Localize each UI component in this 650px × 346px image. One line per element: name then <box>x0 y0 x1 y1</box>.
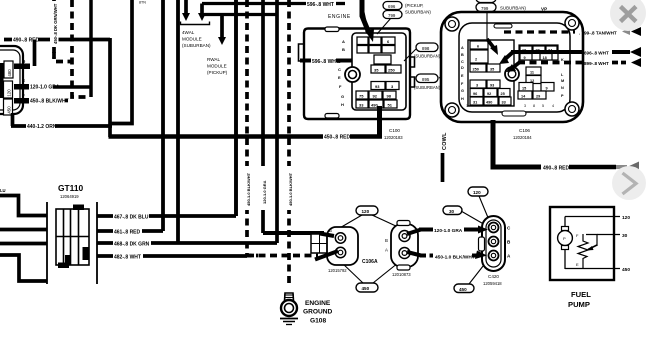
connector C100 shell <box>299 27 415 119</box>
connector C106A female half 12010873 <box>385 221 418 271</box>
C106 bottom slot <box>502 111 526 116</box>
connector C175 left (clipped at edge) <box>0 46 23 115</box>
svg-text:2: 2 <box>475 58 477 62</box>
svg-text:596-.8 WHT: 596-.8 WHT <box>307 2 334 8</box>
svg-text:LU: LU <box>0 188 6 193</box>
svg-text:11: 11 <box>530 71 534 75</box>
svg-text:450: 450 <box>459 287 467 292</box>
connector C420 <box>479 216 512 271</box>
svg-text:482-.8 WHT: 482-.8 WHT <box>114 255 141 261</box>
svg-text:A: A <box>461 46 464 50</box>
wire 490-.8 RED right <box>543 162 639 173</box>
svg-text:450-.8 DK GRN/WHT: 450-.8 DK GRN/WHT <box>53 3 58 44</box>
svg-text:E: E <box>576 262 579 267</box>
wire dashed vertical x72 <box>72 0 90 97</box>
wire 461-.8 RED <box>97 227 163 236</box>
svg-text:G: G <box>461 89 464 93</box>
oval 895 <box>414 74 441 90</box>
svg-text:12015792: 12015792 <box>328 268 347 273</box>
svg-text:N: N <box>561 86 564 90</box>
label GT110 <box>58 183 83 199</box>
svg-text:C: C <box>461 60 464 64</box>
svg-text:FUEL: FUEL <box>571 290 591 299</box>
wire dashed vertical x247 (450-1.0 BLK/WHT) <box>243 0 259 256</box>
svg-text:SUBURBAN): SUBURBAN) <box>405 10 431 15</box>
svg-text:E: E <box>338 75 341 80</box>
svg-text:(SUBURBAN): (SUBURBAN) <box>182 43 211 48</box>
svg-text:4WAL: 4WAL <box>182 30 195 35</box>
svg-text:450: 450 <box>622 267 630 273</box>
wire 468-.8 DK GRN <box>97 239 277 248</box>
wire oval895 to C106 <box>439 60 476 78</box>
svg-text:H: H <box>341 102 344 107</box>
svg-text:MODULE: MODULE <box>207 64 227 69</box>
svg-text:120: 120 <box>7 89 12 97</box>
svg-text:51: 51 <box>388 103 393 108</box>
svg-text:12064919: 12064919 <box>60 194 79 199</box>
wire RWAL feed <box>204 13 277 16</box>
svg-text:A: A <box>385 248 388 253</box>
C100 row letters <box>338 39 345 107</box>
svg-text:120-1.0 GRA: 120-1.0 GRA <box>434 228 463 234</box>
C106 left letters <box>461 46 464 101</box>
wire stub diagonal into pin A <box>315 251 338 260</box>
svg-text:92: 92 <box>487 92 491 96</box>
oval 696 upper right (clipped) <box>476 0 496 3</box>
wire from oval 799 to C100 <box>377 18 391 34</box>
svg-text:B: B <box>461 53 464 57</box>
svg-text:450-.8 RED: 450-.8 RED <box>324 135 351 141</box>
svg-text:15: 15 <box>522 87 526 91</box>
wire oval30 to C420 <box>461 211 487 226</box>
svg-text:440-1.2 ORN: 440-1.2 ORN <box>27 124 57 130</box>
wire vertical x91 <box>89 0 93 97</box>
GT110 left bracket <box>46 202 48 284</box>
oval 450 left <box>356 283 378 292</box>
svg-text:799: 799 <box>388 13 396 18</box>
wire 596-.8 WHT into C100 <box>300 59 352 65</box>
svg-text:5: 5 <box>542 104 544 108</box>
svg-text:C106A: C106A <box>362 259 378 265</box>
wire pin D riser <box>33 40 37 67</box>
svg-text:D: D <box>461 66 464 70</box>
wire oval450 to C106A pins <box>341 262 363 283</box>
svg-text:C100: C100 <box>389 128 400 133</box>
svg-text:18: 18 <box>543 56 547 60</box>
svg-text:B: B <box>329 228 332 233</box>
svg-text:4: 4 <box>552 104 554 108</box>
svg-text:G: G <box>341 94 344 99</box>
svg-text:696-.8 WHT: 696-.8 WHT <box>584 51 609 56</box>
wire from C100 to oval 898 <box>404 47 418 61</box>
svg-text:G108: G108 <box>310 318 326 325</box>
svg-text:799: 799 <box>481 6 489 11</box>
wire 450-.8 BLK/WHT <box>14 97 69 105</box>
svg-text:(PICKUP): (PICKUP) <box>207 70 228 75</box>
svg-text:898: 898 <box>422 46 430 51</box>
svg-text:ENGINE: ENGINE <box>305 300 331 307</box>
fuel pump wires <box>565 217 620 270</box>
svg-text:450: 450 <box>7 106 12 114</box>
svg-text:B: B <box>342 47 345 52</box>
wire vertical x163 <box>161 0 165 231</box>
C100 boss circle <box>345 67 360 82</box>
svg-text:12020184: 12020184 <box>513 135 532 140</box>
C106 left grid <box>468 40 514 106</box>
wire 596-.8 WHT upper <box>202 0 345 8</box>
pin E <box>14 78 30 90</box>
C106 boss circle <box>505 67 519 81</box>
oval 799 right <box>476 3 496 12</box>
svg-text:33: 33 <box>359 103 364 108</box>
wire C100 490 drop <box>377 106 382 138</box>
C106 bottom numbers <box>466 104 554 108</box>
svg-text:9: 9 <box>546 87 548 91</box>
label (PICKUP, SUBURBAN) <box>405 3 431 15</box>
wire dashed horizontal y255 <box>247 254 318 258</box>
svg-text:92: 92 <box>373 94 378 99</box>
cowl boundary line <box>441 153 445 182</box>
svg-text:120-1.0 GRA: 120-1.0 GRA <box>262 180 267 204</box>
svg-text:(PICKUP,: (PICKUP, <box>405 3 423 8</box>
svg-text:596-.8 WHT: 596-.8 WHT <box>312 59 339 65</box>
arrow 4WAL right <box>198 4 206 22</box>
svg-text:120: 120 <box>622 215 630 221</box>
next chevron overlay <box>612 166 646 200</box>
connector C106 shell <box>441 12 583 122</box>
arrow 4WAL left <box>182 0 190 21</box>
ground symbol G108 <box>280 293 298 325</box>
wire vertical x178 <box>176 0 180 243</box>
wire left feed 2 <box>0 228 47 232</box>
svg-text:. 799-.8 TAN/WHT: . 799-.8 TAN/WHT <box>579 31 617 36</box>
wire 440-1.2 ORN <box>11 113 112 130</box>
wire 899-.8 WHT dashed <box>506 58 641 72</box>
svg-text:30: 30 <box>449 209 455 214</box>
svg-text:A: A <box>342 39 345 44</box>
connector C106A male half 12015792 <box>311 227 358 265</box>
svg-text:468-.8 DK GRN: 468-.8 DK GRN <box>114 242 150 248</box>
svg-text:450-.8 BLK/WHT: 450-.8 BLK/WHT <box>30 99 69 105</box>
svg-text:490-.8 RED: 490-.8 RED <box>543 166 570 172</box>
svg-text:SUBURBAN): SUBURBAN) <box>500 6 526 11</box>
svg-text:C: C <box>338 67 341 72</box>
svg-text:H: H <box>461 97 464 101</box>
oval 799 <box>383 11 402 19</box>
wire 120-1.0 GRA to C420 <box>407 226 488 235</box>
wire left feed 1 <box>0 196 47 216</box>
label 4WAL MODULE (SUBURBAN) <box>182 30 211 48</box>
svg-text:29: 29 <box>536 95 540 99</box>
C100 pin grid <box>352 33 406 110</box>
oval 30 <box>443 206 462 215</box>
svg-text:B: B <box>385 238 388 243</box>
oval 120 left <box>356 206 378 215</box>
wire 120 GRA elbow to connector <box>263 231 324 235</box>
wire 490-.8 RED long horizontal to C100 <box>109 132 383 141</box>
svg-text:1: 1 <box>466 104 468 108</box>
label C100 12020183 <box>384 128 403 140</box>
wire vertical x277 <box>275 0 279 243</box>
svg-text:35: 35 <box>374 68 379 73</box>
svg-text:GT110: GT110 <box>58 183 83 193</box>
svg-text:GROUND: GROUND <box>303 309 333 316</box>
wire vertical x263 (120-1.0 GRA) <box>259 0 268 233</box>
svg-text:75: 75 <box>359 94 364 99</box>
svg-text:12020183: 12020183 <box>384 135 403 140</box>
close button overlay <box>610 0 646 31</box>
wire vertical x236 <box>234 0 238 216</box>
svg-text:8: 8 <box>533 104 535 108</box>
wire oval120 to C420 <box>479 196 489 220</box>
label C106 12020184 <box>513 128 532 140</box>
GT110 relay body <box>56 205 89 269</box>
wire stub into pin B <box>320 234 334 237</box>
fuel pump motor <box>558 227 573 250</box>
C106 corner bosses <box>445 16 579 117</box>
svg-text:461-.8 RED: 461-.8 RED <box>114 230 141 236</box>
wire 490-.8 RED horizontal top-left <box>4 36 110 44</box>
svg-text:3: 3 <box>524 104 526 108</box>
svg-text:96: 96 <box>473 92 477 96</box>
label ENGINE GROUND G108 <box>303 300 333 325</box>
oval 696 <box>383 2 402 10</box>
wire dashed 450-.8 DK GRN/WHT vertical <box>50 0 72 62</box>
svg-text:480: 480 <box>7 69 12 77</box>
svg-text:12059418: 12059418 <box>483 281 502 286</box>
label FUEL PUMP <box>568 290 591 309</box>
svg-text:450-1.0 BLK/WHT: 450-1.0 BLK/WHT <box>288 172 293 206</box>
C106 right grid <box>518 45 558 99</box>
oval 898 <box>414 43 441 59</box>
arrow RWAL <box>218 15 226 46</box>
svg-text:467-.8 DK BLU: 467-.8 DK BLU <box>114 215 149 221</box>
svg-text:12010873: 12010873 <box>392 272 411 277</box>
svg-text:3: 3 <box>476 84 478 88</box>
svg-text:35: 35 <box>490 68 494 72</box>
svg-text:8TN: 8TN <box>139 1 146 5</box>
svg-text:9: 9 <box>524 56 526 60</box>
svg-text:K: K <box>561 58 564 62</box>
wire vertical x132 (440 ORN riser) <box>110 0 132 124</box>
svg-text:C106: C106 <box>519 128 530 133</box>
svg-text:6: 6 <box>477 45 479 49</box>
label C420 12059418 <box>483 274 502 286</box>
svg-text:98: 98 <box>387 94 392 99</box>
svg-text:490: 490 <box>486 101 492 105</box>
wire dashed vertical x289 (450-1.0 BLK/WHT to ground) <box>285 0 294 284</box>
oval 120 right <box>468 187 488 196</box>
svg-text:RWAL: RWAL <box>207 57 220 62</box>
svg-text:450: 450 <box>362 286 370 291</box>
fuel pump box <box>550 207 614 280</box>
wire oval120 to C106A pins <box>338 215 362 229</box>
svg-text:(SUBURBAN): (SUBURBAN) <box>414 85 441 90</box>
svg-text:ENGINE: ENGINE <box>328 14 351 20</box>
svg-text:COWL: COWL <box>442 132 448 150</box>
oval 450 right <box>454 284 474 293</box>
svg-text:F: F <box>22 93 25 98</box>
wire 450-1.0 BLK/WHT to C420 dashed <box>407 251 487 261</box>
wire 482-.8 WHT <box>97 252 247 261</box>
wire 696-.8 WHT <box>499 47 641 64</box>
svg-text:450-1.0 BLK/WHT: 450-1.0 BLK/WHT <box>435 255 475 261</box>
wire oval 799 into C106 <box>487 11 498 55</box>
C106 right letters <box>561 50 564 98</box>
pin D <box>14 59 30 69</box>
wire left feed 4 <box>0 255 47 281</box>
svg-text:P: P <box>563 236 566 241</box>
svg-text:C420: C420 <box>488 274 499 279</box>
pin F <box>14 93 30 104</box>
wire C106 490 drop <box>493 120 541 167</box>
svg-text:899-.8 WHT: 899-.8 WHT <box>584 61 609 66</box>
wire 799-.8 TAN/WHT <box>504 27 641 36</box>
C106 top slot <box>494 24 512 28</box>
svg-text:120: 120 <box>473 190 481 195</box>
svg-text:450-1.0 BLK/WHT: 450-1.0 BLK/WHT <box>246 172 251 206</box>
4WAL module bracket <box>181 22 210 25</box>
svg-text:PUMP: PUMP <box>568 300 590 309</box>
svg-text:696: 696 <box>388 4 396 9</box>
wire 467-.8 DK BLU <box>97 212 236 221</box>
wire left feed 3 <box>0 242 47 246</box>
wire oval450 to C420 <box>469 261 487 284</box>
svg-text:(SUBURBAN): (SUBURBAN) <box>414 54 441 59</box>
wire 120-1.0 GRA <box>14 83 91 91</box>
svg-text:31: 31 <box>473 101 477 105</box>
svg-text:93: 93 <box>375 84 380 89</box>
svg-text:33: 33 <box>502 101 506 105</box>
fuel sender resistor <box>576 233 620 269</box>
svg-text:250: 250 <box>388 68 395 73</box>
svg-text:120-1.0 GRA: 120-1.0 GRA <box>30 85 60 91</box>
svg-text:93: 93 <box>490 84 494 88</box>
svg-text:895: 895 <box>422 77 430 82</box>
wire thick into C100 from top <box>362 0 374 42</box>
svg-text:120: 120 <box>362 209 370 214</box>
wire vertical x110 (490 RED drop) <box>108 38 112 137</box>
svg-text:MODULE: MODULE <box>182 37 202 42</box>
label RWAL MODULE (PICKUP) <box>207 57 228 75</box>
svg-text:M: M <box>561 79 564 83</box>
svg-text:30: 30 <box>622 233 628 239</box>
svg-text:25: 25 <box>501 92 505 96</box>
svg-text:250: 250 <box>473 68 479 72</box>
svg-text:E: E <box>22 78 25 83</box>
GT110 right bracket <box>96 202 98 284</box>
